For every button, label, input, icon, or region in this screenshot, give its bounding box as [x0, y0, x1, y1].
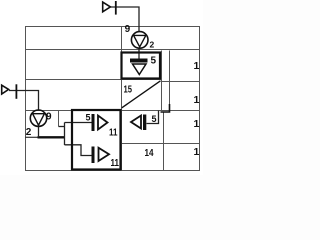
- svg-text:1: 1: [194, 118, 200, 130]
- svg-text:2: 2: [26, 127, 32, 138]
- svg-text:5: 5: [152, 114, 157, 124]
- svg-text:11: 11: [111, 158, 120, 169]
- svg-text:11: 11: [109, 128, 118, 139]
- svg-text:5: 5: [151, 56, 157, 67]
- svg-text:1: 1: [194, 94, 200, 106]
- svg-text:9: 9: [125, 24, 131, 35]
- svg-text:5: 5: [86, 113, 91, 123]
- svg-text:2: 2: [150, 40, 155, 50]
- svg-text:1: 1: [194, 146, 200, 158]
- svg-text:14: 14: [145, 148, 154, 159]
- svg-text:1: 1: [194, 60, 200, 72]
- svg-text:15: 15: [124, 85, 133, 96]
- svg-text:9: 9: [46, 112, 52, 123]
